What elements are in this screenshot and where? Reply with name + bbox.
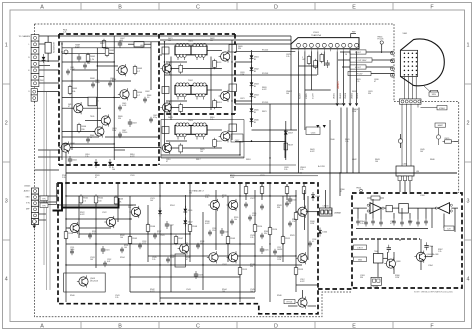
svg-text:C602: C602 bbox=[145, 91, 150, 93]
heavy wire from CN505 b bbox=[40, 183, 57, 204]
inductor L601 bbox=[396, 164, 414, 181]
resistor R620b bbox=[179, 143, 183, 153]
svg-text:330: 330 bbox=[250, 266, 253, 268]
transistor Q508 bbox=[77, 275, 88, 287]
wire sub cap ground rail bbox=[356, 228, 428, 230]
transistor Q611 bbox=[219, 50, 230, 62]
svg-text:C531: C531 bbox=[160, 235, 165, 237]
wire bus RV1 bbox=[235, 50, 295, 52]
svg-text:0.022: 0.022 bbox=[170, 257, 174, 259]
svg-text:1/2W: 1/2W bbox=[112, 130, 116, 132]
wire IC pin 5 drop bbox=[323, 51, 325, 66]
svg-text:C642: C642 bbox=[352, 159, 357, 161]
svg-text:560: 560 bbox=[109, 53, 112, 55]
wire IC pin 7 bundle bbox=[336, 51, 338, 103]
cap C607 bbox=[118, 40, 122, 48]
svg-text:0.033: 0.033 bbox=[122, 105, 126, 107]
svg-text:1/2W: 1/2W bbox=[240, 74, 244, 76]
wire Q510 collector bbox=[304, 190, 306, 209]
wire diode feed 2 bbox=[235, 100, 252, 102]
svg-text:T603: T603 bbox=[188, 120, 194, 122]
cap C501 bbox=[101, 246, 110, 254]
svg-text:B5: B5 bbox=[254, 112, 256, 114]
CRT socket bbox=[401, 50, 418, 76]
svg-text:T3.15AH 250V: T3.15AH 250V bbox=[53, 41, 56, 53]
svg-text:C621: C621 bbox=[240, 98, 245, 100]
resistor R512 bbox=[294, 211, 304, 221]
svg-text:AUDIO: AUDIO bbox=[24, 190, 30, 193]
resistor R551 bbox=[244, 185, 248, 195]
svg-text:FOCUS: FOCUS bbox=[378, 38, 385, 40]
svg-text:47: 47 bbox=[374, 81, 376, 83]
transistor Q503 bbox=[129, 206, 140, 218]
svg-text:B5: B5 bbox=[254, 71, 256, 73]
svg-text:D: D bbox=[274, 324, 278, 330]
svg-text:Q606: Q606 bbox=[70, 143, 75, 145]
op-amp U1 IC601 body bbox=[291, 38, 359, 49]
transistor Q501 bbox=[68, 222, 79, 234]
wire stub lower a bbox=[38, 149, 59, 151]
label box C516 bbox=[306, 127, 320, 135]
cap C608 bbox=[77, 54, 81, 62]
svg-text:T605: T605 bbox=[90, 116, 94, 118]
svg-text:C503: C503 bbox=[198, 275, 203, 277]
transistor Q604 bbox=[99, 114, 110, 126]
svg-text:2.2k: 2.2k bbox=[210, 119, 213, 121]
wire CN601 stub a bbox=[39, 35, 62, 37]
wire horiz y144 bbox=[62, 143, 114, 145]
wire horiz y36 bbox=[62, 35, 291, 37]
svg-text:Q303: Q303 bbox=[396, 261, 400, 263]
diode D606 bbox=[250, 116, 260, 125]
svg-text:47: 47 bbox=[222, 197, 224, 199]
svg-text:47: 47 bbox=[186, 259, 188, 261]
wire stub lower b bbox=[38, 156, 62, 158]
transistor Q510 bbox=[296, 206, 307, 218]
wire horiz y47.8 bbox=[62, 47, 151, 49]
wire diode feed 3 bbox=[235, 141, 286, 143]
wire vertical x97 bbox=[96, 48, 98, 127]
svg-text:C501: C501 bbox=[105, 250, 110, 252]
cap C603 bbox=[128, 119, 137, 127]
svg-text:100: 100 bbox=[168, 40, 171, 42]
resistor R601 bbox=[86, 53, 96, 63]
wire heater to socket bbox=[371, 73, 395, 75]
wire bus RV3 bbox=[235, 102, 345, 104]
transistor Q615 bbox=[219, 130, 230, 142]
svg-text:C304: C304 bbox=[429, 246, 434, 248]
transistor Q509 bbox=[227, 251, 238, 263]
resistor R602 bbox=[105, 47, 115, 57]
notch transistor wires bbox=[288, 290, 316, 306]
svg-text:TP6: TP6 bbox=[42, 206, 45, 208]
arrow marks diode bundle bbox=[336, 103, 359, 106]
focus pack FB601 bbox=[378, 36, 385, 53]
extra tiny labels 2 bbox=[70, 61, 316, 263]
wire vertical x151 bbox=[150, 42, 152, 90]
svg-text:0.022: 0.022 bbox=[80, 214, 85, 216]
svg-text:A: A bbox=[40, 324, 44, 330]
wire vertical x114 bbox=[113, 36, 115, 160]
resistor R553 bbox=[285, 185, 289, 195]
svg-text:D: D bbox=[274, 5, 278, 11]
label box B OUT bbox=[350, 65, 366, 69]
svg-text:10/50: 10/50 bbox=[70, 249, 74, 251]
resistor R506 bbox=[146, 223, 156, 233]
resistor R513 bbox=[294, 266, 304, 276]
diode D504 bbox=[318, 228, 328, 237]
svg-text:0.022: 0.022 bbox=[205, 223, 210, 225]
svg-text:2.2k: 2.2k bbox=[205, 197, 208, 199]
power dashed box bottom area bbox=[58, 183, 318, 314]
resistor R554 bbox=[302, 185, 306, 195]
svg-text:A: A bbox=[40, 5, 44, 11]
diode D502 bbox=[183, 218, 193, 227]
resistor R504 bbox=[64, 230, 74, 240]
svg-text:1000p: 1000p bbox=[95, 82, 100, 84]
svg-text:100: 100 bbox=[222, 291, 225, 293]
cap C503 bbox=[194, 271, 203, 279]
svg-text:T601: T601 bbox=[188, 41, 194, 43]
resistor R655 bbox=[443, 138, 454, 143]
wire sub lower links bbox=[378, 239, 432, 277]
svg-text:VIDEO: VIDEO bbox=[439, 108, 445, 110]
svg-text:22/160: 22/160 bbox=[122, 132, 127, 134]
wire horiz y131 bbox=[62, 131, 95, 133]
wire L601 to sub board bbox=[400, 181, 410, 192]
svg-text:C505: C505 bbox=[264, 250, 269, 252]
transistor Q507 bbox=[207, 251, 218, 263]
transformer dashed box bottom bbox=[159, 113, 235, 115]
wire CN505 leads bbox=[39, 196, 59, 220]
wire sub verticals bbox=[358, 199, 455, 232]
transformer dashed box right bbox=[234, 34, 236, 114]
resistor R510 bbox=[253, 223, 263, 233]
label box V-ROT bbox=[354, 245, 367, 250]
wire pin10 stub bbox=[356, 51, 358, 103]
CN601 pin labels bbox=[28, 44, 30, 93]
svg-text:0.047: 0.047 bbox=[252, 215, 256, 217]
svg-text:R529: R529 bbox=[290, 235, 295, 237]
test point TP303 bbox=[356, 188, 362, 192]
svg-text:470p: 470p bbox=[153, 117, 157, 119]
svg-text:JW601: JW601 bbox=[334, 93, 336, 99]
svg-text:C522: C522 bbox=[102, 212, 107, 214]
label box TO TUNER bbox=[370, 277, 381, 288]
svg-text:B5: B5 bbox=[254, 86, 256, 88]
svg-text:V-OUT: V-OUT bbox=[312, 92, 314, 99]
resistor R627 bbox=[320, 53, 324, 63]
op-amp U302 bbox=[435, 203, 452, 214]
wire video B to socket bbox=[342, 66, 393, 68]
hot area dashed box bottom bbox=[59, 164, 159, 166]
wire CN604 to video box bbox=[418, 104, 437, 107]
IC601 pins bbox=[297, 43, 359, 51]
transistor Q605 bbox=[93, 125, 104, 137]
svg-text:GND: GND bbox=[26, 197, 31, 199]
transistor Q601 bbox=[116, 64, 127, 76]
resistor R515 bbox=[238, 266, 248, 276]
transistor Q512 bbox=[296, 297, 307, 309]
wire CN601 stub b bbox=[39, 43, 45, 45]
svg-text:330: 330 bbox=[238, 48, 241, 50]
cap C506 bbox=[288, 196, 297, 204]
svg-text:330: 330 bbox=[81, 129, 84, 131]
wire bus 9V bbox=[160, 43, 291, 45]
svg-text:2.2k: 2.2k bbox=[360, 223, 363, 225]
wire diode column bbox=[251, 50, 253, 127]
resistor R501 bbox=[79, 194, 89, 204]
svg-text:LINEAR: LINEAR bbox=[334, 212, 341, 215]
resistor R605 bbox=[68, 85, 78, 95]
wire x291 lower bbox=[290, 84, 292, 130]
svg-text:D623: D623 bbox=[168, 117, 173, 119]
svg-text:2.2: 2.2 bbox=[83, 200, 86, 202]
svg-text:47k: 47k bbox=[118, 201, 121, 203]
wire pins cross a bbox=[299, 65, 318, 67]
connector CN603 bbox=[320, 206, 333, 217]
svg-text:0.022: 0.022 bbox=[262, 89, 267, 91]
wire main bus B plus bbox=[66, 172, 457, 174]
svg-text:0.022: 0.022 bbox=[130, 156, 135, 158]
dashed bridge to sub board bbox=[318, 288, 352, 290]
diode D603 bbox=[250, 80, 260, 89]
wire horiz y53 bbox=[62, 52, 114, 54]
transistor Q505 bbox=[208, 199, 219, 211]
svg-text:47: 47 bbox=[390, 223, 392, 225]
diode D501 bbox=[183, 206, 193, 215]
wire bus RV4 bbox=[252, 129, 298, 131]
inductor L602 bbox=[128, 42, 151, 47]
spark gap SG601 bbox=[398, 134, 402, 148]
transformer T601 bbox=[162, 41, 237, 61]
svg-text:1/2W: 1/2W bbox=[230, 177, 234, 179]
CRT picture tube V601 bbox=[401, 39, 445, 86]
resistor R619b bbox=[179, 103, 183, 113]
cap C505 bbox=[260, 246, 269, 254]
transformer T602 bbox=[162, 80, 237, 100]
svg-text:4.7k: 4.7k bbox=[92, 233, 95, 235]
label box 185V bbox=[429, 92, 439, 96]
cap C304 bbox=[424, 242, 433, 250]
svg-text:C300: C300 bbox=[420, 195, 425, 197]
wire ch verticals bbox=[165, 40, 233, 150]
svg-text:JW607: JW607 bbox=[336, 80, 340, 89]
svg-text:330: 330 bbox=[277, 207, 280, 209]
hot area dashed box top bbox=[59, 33, 235, 35]
svg-text:V-DRV: V-DRV bbox=[306, 93, 308, 99]
svg-text:1/2W: 1/2W bbox=[310, 223, 314, 225]
wire IC pin 9 bundle bbox=[349, 51, 351, 103]
label Q508 bbox=[90, 278, 98, 283]
label box 12V bbox=[444, 226, 454, 230]
svg-text:0.01: 0.01 bbox=[107, 261, 110, 263]
svg-text:TP303: TP303 bbox=[356, 188, 361, 190]
diode marks on pin drops bbox=[316, 125, 326, 128]
svg-text:C604: C604 bbox=[72, 160, 77, 162]
svg-text:1/2W: 1/2W bbox=[352, 111, 356, 113]
svg-text:T602: T602 bbox=[188, 80, 194, 82]
svg-text:R617: R617 bbox=[196, 159, 201, 161]
connector CN604 bbox=[400, 99, 422, 104]
cap C601 bbox=[90, 97, 99, 105]
svg-text:1.5k: 1.5k bbox=[292, 221, 295, 223]
mute pack T304 bbox=[373, 251, 383, 263]
svg-text:47: 47 bbox=[340, 191, 342, 193]
svg-text:100: 100 bbox=[375, 161, 378, 163]
wire r619 link bbox=[285, 121, 287, 160]
svg-text:1: 1 bbox=[5, 43, 8, 49]
svg-text:TP5: TP5 bbox=[42, 199, 45, 201]
CRT socket pins bbox=[391, 51, 395, 77]
svg-text:RY-203: RY-203 bbox=[262, 73, 268, 75]
resistor R618 bbox=[179, 64, 183, 74]
svg-text:HEAT: HEAT bbox=[438, 124, 444, 127]
wire CN601 stub g bbox=[39, 82, 59, 84]
heavy wire from CN505 a bbox=[53, 183, 63, 211]
svg-text:3: 3 bbox=[467, 199, 470, 205]
svg-text:1.2k: 1.2k bbox=[85, 156, 88, 158]
wire pins cross b bbox=[305, 89, 331, 91]
diode D605 bbox=[250, 106, 260, 115]
heavy wire ground bus bbox=[62, 198, 119, 208]
svg-text:47: 47 bbox=[95, 177, 97, 179]
CRT dag ground box bbox=[424, 86, 438, 94]
wire Q510 to CN603 bbox=[306, 211, 320, 213]
svg-text:0.022: 0.022 bbox=[300, 281, 305, 283]
svg-text:1.2k: 1.2k bbox=[115, 297, 118, 299]
svg-text:1/50: 1/50 bbox=[212, 230, 215, 232]
cap C604 bbox=[68, 156, 77, 164]
transistor Q304 bbox=[414, 251, 425, 263]
transistor Q614 bbox=[160, 101, 171, 113]
relay box K501 bbox=[175, 254, 185, 267]
svg-text:B5: B5 bbox=[254, 122, 256, 124]
svg-text:B OUT: B OUT bbox=[355, 67, 362, 69]
diode column values bbox=[254, 59, 256, 124]
svg-text:B+135V: B+135V bbox=[318, 166, 326, 168]
svg-text:2.2k: 2.2k bbox=[152, 259, 155, 261]
resistor R613 bbox=[213, 99, 223, 109]
extra caps box1 and bottom bbox=[66, 63, 312, 267]
label box H 6.3V bbox=[348, 71, 371, 75]
svg-text:100: 100 bbox=[98, 200, 101, 202]
svg-text:4: 4 bbox=[467, 277, 470, 283]
wire Q601 base bbox=[97, 65, 118, 67]
CN505 labels bbox=[24, 190, 31, 211]
connector CN601 bbox=[31, 35, 39, 87]
wire ch1 links bbox=[159, 51, 222, 69]
label box HEAT bbox=[435, 123, 446, 127]
wire horiz y121 bbox=[85, 120, 101, 122]
wire ch to bus bbox=[239, 141, 241, 155]
wire box1 extra a bbox=[62, 61, 114, 63]
varistor VA601 bbox=[64, 50, 68, 54]
svg-text:1: 1 bbox=[467, 43, 470, 49]
svg-text:SONY : WEGA CORPORATION 2001-2: SONY : WEGA CORPORATION 2001-2005 bbox=[414, 291, 454, 294]
shield box Q508 bbox=[64, 273, 105, 292]
diode D505 bbox=[158, 208, 162, 217]
svg-text:R540: R540 bbox=[70, 295, 75, 297]
wire IC pin 3 drop bbox=[310, 51, 312, 90]
sub board inner dashed divider bbox=[353, 238, 420, 240]
svg-text:330: 330 bbox=[360, 277, 363, 279]
svg-text:1k: 1k bbox=[90, 137, 92, 139]
svg-text:100: 100 bbox=[120, 40, 123, 42]
frame column ticks bottom bbox=[80, 322, 82, 329]
svg-text:1.2k: 1.2k bbox=[345, 141, 348, 143]
svg-text:B: B bbox=[118, 5, 122, 11]
resistor R606 bbox=[77, 123, 87, 133]
svg-text:4: 4 bbox=[5, 277, 8, 283]
svg-text:560: 560 bbox=[200, 243, 203, 245]
svg-text:2SC2013: 2SC2013 bbox=[90, 281, 98, 283]
svg-text:TO CHASSIS: TO CHASSIS bbox=[19, 35, 31, 38]
hot area dashed box left bbox=[58, 34, 60, 165]
svg-text:220: 220 bbox=[87, 63, 90, 65]
wire bundle to bus b bbox=[346, 108, 348, 174]
svg-text:G OUT 180V: G OUT 180V bbox=[356, 60, 368, 62]
resistor R503 bbox=[114, 195, 124, 205]
wire CN601b stub bbox=[37, 91, 59, 93]
transformer T603 bbox=[162, 120, 237, 140]
wire box1 extra b bbox=[72, 69, 97, 71]
svg-text:4.7: 4.7 bbox=[137, 95, 140, 97]
svg-text:P601: P601 bbox=[40, 80, 44, 82]
wire bundle to bus d bbox=[358, 108, 360, 174]
wire bottom verticals bbox=[66, 150, 340, 302]
wire horiz y108 bbox=[62, 107, 74, 109]
wire IC pin 8 bundle bbox=[343, 51, 345, 103]
wire horiz y97 bbox=[62, 97, 120, 99]
svg-text:0.022: 0.022 bbox=[310, 151, 315, 153]
svg-text:C543: C543 bbox=[186, 289, 191, 291]
svg-text:R618: R618 bbox=[246, 159, 251, 161]
label CN5xx test points bbox=[40, 196, 48, 208]
wire IC pin 1 drop bbox=[298, 51, 300, 173]
wire Q606 down bbox=[65, 152, 67, 183]
wire x291 drop bbox=[290, 36, 292, 84]
wire box1 extra e bbox=[114, 149, 125, 151]
converter box U303 bbox=[399, 204, 409, 214]
wire horiz y114 bbox=[83, 107, 101, 109]
wire bus 7V bbox=[160, 39, 291, 41]
sub board dashed box bbox=[352, 193, 462, 288]
diode D607 bbox=[284, 128, 294, 137]
diode D503 bbox=[311, 192, 321, 201]
resistor R604 bbox=[133, 89, 143, 99]
diode D610 bbox=[42, 54, 46, 63]
svg-text:33k: 33k bbox=[264, 233, 267, 235]
wire IC pin 2 drop bbox=[304, 51, 306, 130]
cap C303 bbox=[387, 245, 391, 253]
svg-text:330: 330 bbox=[189, 193, 192, 195]
svg-text:L: L bbox=[29, 44, 30, 46]
svg-text:1.2k: 1.2k bbox=[438, 251, 441, 253]
wire vertical x62 bbox=[61, 42, 63, 160]
svg-text:10k: 10k bbox=[72, 91, 75, 93]
transistor Q502 bbox=[104, 216, 115, 228]
svg-text:C603: C603 bbox=[132, 123, 137, 125]
transistor Q506 bbox=[227, 199, 238, 211]
label box VIDEO bbox=[437, 106, 447, 110]
svg-text:C520: C520 bbox=[130, 175, 135, 177]
wire outline to box bbox=[35, 169, 60, 171]
svg-text:2.2k: 2.2k bbox=[284, 169, 287, 171]
diode D602 bbox=[250, 65, 260, 74]
diode D531 bbox=[94, 159, 98, 168]
resistor R552 bbox=[260, 185, 264, 195]
